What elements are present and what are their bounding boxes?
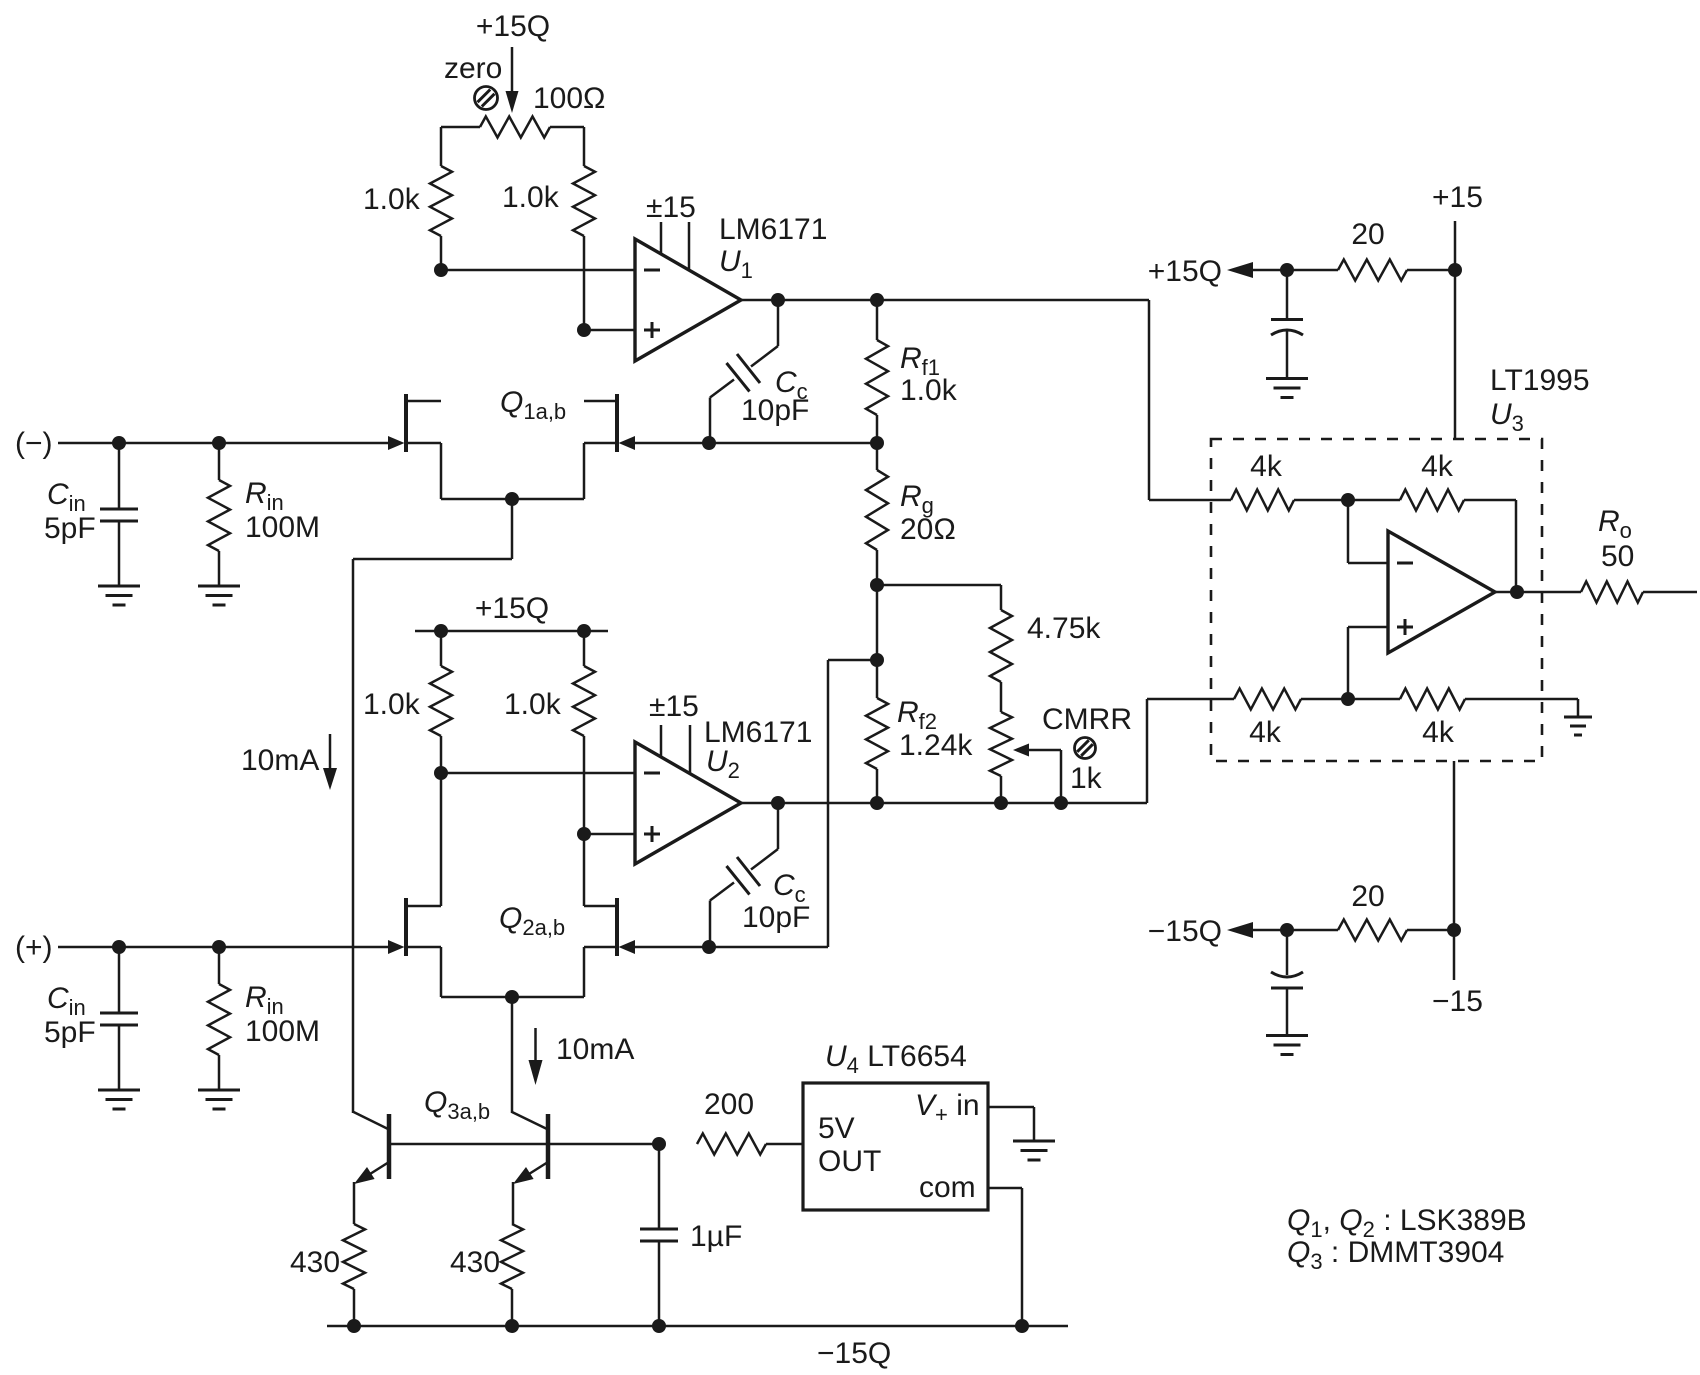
resistor 1.0k (U2 right load) (573, 631, 595, 906)
ground below Rin (plus input) (198, 1090, 240, 1109)
svg-text:20: 20 (1351, 880, 1384, 913)
wire Rf2 top node to Q2b gate riser (828, 660, 877, 947)
svg-text:10pF: 10pF (741, 394, 809, 427)
wire U1 non-inverting input (584, 329, 635, 332)
svg-text:1.0k: 1.0k (363, 688, 421, 721)
wire Q3a emitter to 430 resistor (353, 1182, 356, 1224)
label 200 (704, 1088, 754, 1121)
wire U2 output row to U3 bottom 4k (741, 699, 1234, 803)
svg-text:1.24k: 1.24k (899, 729, 973, 762)
transistor Q2a (JFET left) (388, 898, 441, 956)
svg-text:com: com (919, 1171, 976, 1204)
resistor 4k bottom-left (1234, 689, 1348, 710)
label LT1995 U3 (1490, 364, 1590, 436)
junction rail at 1uF (652, 1319, 666, 1333)
svg-text:1k: 1k (1070, 762, 1103, 795)
svg-text:4k: 4k (1250, 450, 1283, 483)
resistor 1.0k (U1 right load) (573, 127, 595, 330)
resistor 1.0k (U2 left load) (430, 631, 452, 906)
junction U2 output pot tap (994, 796, 1008, 810)
label 1.0k (U1 left load) (363, 183, 421, 216)
junction (-) input at Rin (212, 436, 226, 450)
wire Q1 common source (353, 443, 584, 559)
svg-text:100Ω: 100Ω (533, 82, 605, 115)
svg-text:−15Q: −15Q (1148, 915, 1222, 948)
svg-text:1µF: 1µF (690, 1220, 742, 1253)
ground at U3 reference (1564, 717, 1592, 735)
wire U1 output to U3 top 4k (741, 300, 1231, 500)
junction (+) input at Cin (112, 940, 126, 954)
label zero (444, 52, 502, 85)
junction U1 output Cc tap (771, 293, 785, 307)
resistor 20 (plus filter) (1287, 260, 1455, 281)
label 100 ohm (533, 82, 605, 115)
junction Rf1 bottom node (870, 436, 884, 450)
label 1.0k (U1 right load) (502, 181, 560, 214)
junction -15 at 20 ohm (1447, 923, 1461, 937)
label 20 (plus filter) (1351, 218, 1384, 251)
transistor Q3b (BJT right) (512, 1112, 548, 1184)
svg-text:10pF: 10pF (742, 901, 810, 934)
junction Rf2 top node (870, 653, 884, 667)
label 4k top-left (1250, 450, 1283, 483)
label 1.0k (U2 right load) (504, 688, 562, 721)
wire Q1b gate to feedback node (635, 442, 877, 445)
label 430 left (290, 1246, 340, 1279)
label Cin 5pF (minus input) (44, 478, 96, 545)
resistor 4k top-left (1231, 490, 1348, 511)
wire U3 inverting input jog (1348, 500, 1388, 563)
resistor Ro 50 (1581, 582, 1697, 603)
ground below -15Q cap (1266, 1036, 1308, 1055)
label 4k bottom-right (1422, 716, 1455, 749)
resistor Rf2 1.24k (866, 660, 888, 803)
label Rg 20 ohm (900, 480, 956, 546)
junction U2 inverting input node (434, 766, 448, 780)
wire +15 supply (1454, 221, 1457, 439)
label Q3a,b (424, 1086, 490, 1124)
label 10mA stage2 (556, 1033, 634, 1066)
svg-text:OUT: OUT (818, 1145, 881, 1178)
resistor 20 (minus filter) (1287, 920, 1454, 941)
junction Q1 source node (505, 492, 519, 506)
junction U2 non-inverting input node (577, 827, 591, 841)
resistor 4k bottom-right (1348, 689, 1578, 717)
capacitor Cin 5pF (plus input) (100, 947, 138, 1090)
svg-text:5pF: 5pF (44, 512, 96, 545)
svg-text:+15Q: +15Q (1148, 255, 1222, 288)
junction (-) input at Cin (112, 436, 126, 450)
transistor Q1b (JFET right) (584, 394, 635, 452)
wire -15Q bottom rail (327, 1325, 1068, 1328)
svg-text:+15Q: +15Q (476, 10, 550, 43)
junction base node at 200 resistor (652, 1137, 666, 1151)
resistor Rin 100M (plus input) (208, 947, 230, 1090)
svg-text:U4 LT6654: U4 LT6654 (825, 1040, 967, 1078)
svg-text:LM6171: LM6171 (719, 213, 827, 246)
wire U3 output (1495, 591, 1581, 594)
label 1.0k (U2 left load) (363, 688, 421, 721)
current label 10mA stage1 arrow (323, 734, 337, 790)
label +-15 (U2 supplies) (649, 690, 699, 723)
label Cc 10pF (U1) (741, 366, 809, 427)
junction rail at 430 left (347, 1319, 361, 1333)
note Q1 Q2 LSK389B (1287, 1204, 1527, 1242)
wire +15Q rail stage2 (415, 630, 608, 633)
junction U2 output Cc tap (771, 796, 785, 810)
svg-text:(+): (+) (15, 931, 53, 964)
junction U1 output Rf1 tap (870, 293, 884, 307)
capacitor Cin 5pF (minus input) (100, 443, 138, 586)
wire U1 inverting input (441, 269, 635, 272)
op-amp U3 triangle (1388, 531, 1495, 653)
capacitor Cc 10pF (U1) (710, 300, 778, 443)
svg-text:5pF: 5pF (44, 1016, 96, 1049)
svg-text:100M: 100M (245, 1015, 320, 1048)
wire U2 inverting input (441, 772, 635, 775)
svg-text:4k: 4k (1421, 450, 1454, 483)
label Rf1 1.0k (900, 342, 958, 407)
capacitor 1uF (640, 1144, 678, 1326)
junction Rg bottom node (870, 578, 884, 592)
svg-text:(−): (−) (15, 427, 53, 460)
resistor 200 (697, 1134, 803, 1155)
resistor 1.0k (U1 left load) (430, 127, 452, 270)
junction -15Q tap (1280, 923, 1294, 937)
label Rin 100M (plus input) (245, 981, 320, 1048)
label Cc 10pF (U2) (742, 869, 810, 934)
junction U2 output Rf2 tap (870, 796, 884, 810)
svg-text:1.0k: 1.0k (502, 181, 560, 214)
svg-text:−15Q: −15Q (817, 1337, 891, 1370)
wire U2 non-inverting input (584, 833, 635, 836)
label (-) input (15, 427, 53, 460)
junction (+) input at Rin (212, 940, 226, 954)
junction U2 output wiper tap (1054, 796, 1068, 810)
label +-15 (U1 supplies) (646, 191, 696, 224)
current label 10mA stage2 arrow (529, 1028, 543, 1085)
wire -15Q arrow out (1227, 922, 1287, 938)
label 20 (minus filter) (1351, 880, 1384, 913)
svg-text:50: 50 (1601, 540, 1634, 573)
junction +15 at 20 ohm (1448, 263, 1462, 277)
potentiometer 100 ohm (zero trim) (441, 117, 584, 138)
pin label V+ in (915, 1089, 980, 1127)
wire Q2 common source (441, 947, 584, 1113)
label CMRR (1042, 703, 1132, 736)
junction U1 non-inverting input node (577, 323, 591, 337)
svg-text:100M: 100M (245, 511, 320, 544)
resistor 4k top-right (feedback) (1348, 490, 1516, 593)
svg-text:zero: zero (444, 52, 502, 85)
label Rin 100M (minus input) (245, 477, 320, 544)
transistor Q1a (JFET left) (388, 394, 441, 452)
svg-text:10mA: 10mA (241, 744, 319, 777)
transistor Q3a (BJT left) (354, 1112, 389, 1184)
svg-text:±15: ±15 (646, 191, 696, 224)
label (+) input (15, 931, 53, 964)
junction U3 non-inverting node (1341, 692, 1355, 706)
wire U3 non-inverting input jog (1348, 627, 1388, 699)
svg-text:LT1995: LT1995 (1490, 364, 1590, 397)
junction Q2 source node (505, 990, 519, 1004)
wire U3 V- to -15 (1453, 761, 1456, 980)
wire com to -15Q rail (988, 1188, 1022, 1326)
wire Q3b emitter to 430 resistor (512, 1182, 515, 1224)
junction Cc U2 on gate wire (702, 940, 716, 954)
wire Rg bottom to Rf2 top (876, 585, 879, 660)
label Ro 50 (1598, 505, 1634, 573)
resistor 4.75k (877, 585, 1012, 712)
svg-text:1.0k: 1.0k (504, 688, 562, 721)
svg-text:V+ in: V+ in (915, 1089, 980, 1127)
trimmer symbol zero (475, 87, 498, 110)
capacitor -15Q filter (1271, 930, 1303, 1035)
svg-text:+15Q: +15Q (475, 592, 549, 625)
junction rail at U4 com (1015, 1319, 1029, 1333)
resistor Rin 100M (minus input) (208, 443, 230, 586)
label 430 right (450, 1246, 500, 1279)
svg-text:1.0k: 1.0k (363, 183, 421, 216)
wire Q2b gate to riser (635, 946, 828, 949)
pin label 5V OUT (818, 1112, 881, 1178)
junction U1 inverting input node (434, 263, 448, 277)
op-amp U2 LM6171 (635, 725, 741, 864)
transistor Q2b (JFET right) (584, 898, 635, 956)
label Q1a,b (500, 386, 566, 424)
svg-text:430: 430 (290, 1246, 340, 1279)
label 10mA stage1 (241, 744, 319, 777)
junction +15Q rail left (434, 624, 448, 638)
ground below Cin (plus input) (98, 1090, 140, 1109)
label -15 (1432, 985, 1483, 1018)
label +15Q top (476, 10, 550, 43)
label +15 (1432, 181, 1483, 214)
resistor 430 (right) (501, 1224, 523, 1326)
capacitor Cc 10pF (U2) (710, 803, 778, 947)
label 1uF (690, 1220, 742, 1253)
label Q2a,b (499, 902, 565, 940)
svg-text:20Ω: 20Ω (900, 513, 956, 546)
svg-text:5V: 5V (818, 1112, 855, 1145)
svg-text:4.75k: 4.75k (1027, 612, 1101, 645)
svg-text:200: 200 (704, 1088, 754, 1121)
junction U3 output node (1510, 585, 1524, 599)
label LM6171 U1 (719, 213, 827, 283)
junction rail at 430 right (505, 1319, 519, 1333)
wire +15Q arrow out (1227, 262, 1287, 278)
label 1k (1070, 762, 1103, 795)
ground below Rin (minus input) (198, 586, 240, 605)
resistor Rg 20 ohm (866, 443, 888, 585)
label Rf2 1.24k (897, 696, 973, 762)
svg-text:430: 430 (450, 1246, 500, 1279)
label +15Q right (1148, 255, 1222, 288)
svg-text:±15: ±15 (649, 690, 699, 723)
wire Q3 base rail (391, 1143, 659, 1146)
resistor 430 (left) (343, 1224, 365, 1326)
svg-text:4k: 4k (1422, 716, 1455, 749)
label 4k bottom-left (1249, 716, 1282, 749)
svg-text:−15: −15 (1432, 985, 1483, 1018)
pin label com (919, 1171, 976, 1204)
label +15Q stage2 (475, 592, 549, 625)
wire V+ in to ground (988, 1107, 1034, 1141)
label Cin 5pF (plus input) (44, 982, 96, 1049)
svg-text:10mA: 10mA (556, 1033, 634, 1066)
op-amp U1 LM6171 (635, 222, 741, 361)
label -15Q bottom (817, 1337, 891, 1370)
wire long vertical to Q3a collector (352, 559, 355, 1113)
svg-text:20: 20 (1351, 218, 1384, 251)
note Q3 DMMT3904 (1287, 1236, 1504, 1274)
svg-text:1.0k: 1.0k (900, 374, 958, 407)
junction +15Q tap (1280, 263, 1294, 277)
junction U3 inverting node (1341, 493, 1355, 507)
difference amp U3 LT1995 dashed box (1211, 439, 1542, 761)
ground below +15Q cap (1266, 379, 1308, 398)
capacitor +15Q filter (1271, 270, 1303, 378)
voltage reference U4 LT6654 box (803, 1083, 988, 1210)
label 4k top-right (1421, 450, 1454, 483)
wire (+) input line (58, 946, 388, 949)
trimmer symbol CMRR (1075, 738, 1096, 759)
power +15Q arrow to pot wiper (506, 47, 519, 113)
svg-text:+15: +15 (1432, 181, 1483, 214)
ground below Cin (minus input) (98, 586, 140, 605)
wire (-) input line (58, 442, 388, 445)
label 4.75k (1027, 612, 1101, 645)
ground at V+ in (1013, 1141, 1055, 1160)
svg-text:CMRR: CMRR (1042, 703, 1132, 736)
svg-text:4k: 4k (1249, 716, 1282, 749)
junction Cc U1 on gate wire (702, 436, 716, 450)
label LM6171 U2 (704, 716, 812, 783)
label U4 LT6654 (825, 1040, 967, 1078)
label -15Q right (1148, 915, 1222, 948)
resistor Rf1 1.0k (866, 300, 888, 443)
junction +15Q rail right (577, 624, 591, 638)
potentiometer CMRR 1k (990, 712, 1061, 803)
